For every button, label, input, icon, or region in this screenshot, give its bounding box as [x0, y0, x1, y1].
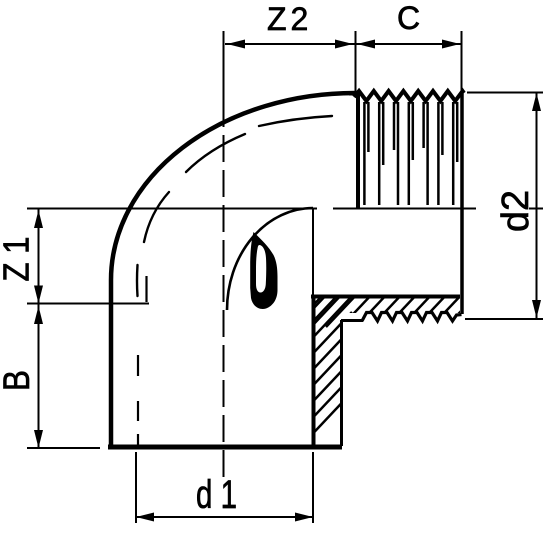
- svg-text:Z 1: Z 1: [0, 237, 37, 282]
- svg-text:Z2: Z2: [267, 1, 312, 37]
- svg-text:C: C: [397, 0, 420, 36]
- svg-text:d 1: d 1: [196, 473, 237, 517]
- svg-text:d2: d2: [495, 190, 537, 232]
- svg-text:B: B: [0, 370, 38, 391]
